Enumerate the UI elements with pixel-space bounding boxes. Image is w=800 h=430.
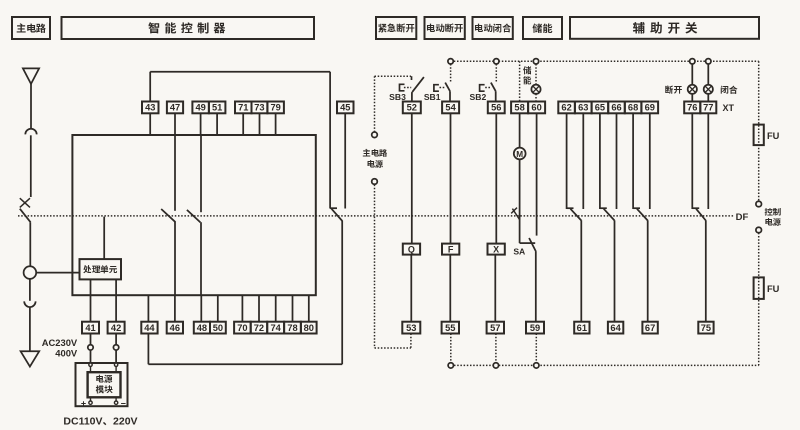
pushbutton SB2 actuator (480, 85, 492, 92)
rail tap circle above SB1 (448, 59, 453, 64)
bottom rail tap circle 57 (493, 363, 498, 368)
svg-text:−: − (121, 398, 126, 408)
svg-text:主电路: 主电路 (16, 20, 47, 35)
wire controller bottom stub x=308.8 (308, 295, 310, 322)
terminal 58 (511, 102, 528, 114)
wire SB2 to terminal (495, 91, 497, 101)
svg-text:64: 64 (610, 323, 621, 333)
svg-text:52: 52 (407, 103, 417, 113)
instrument circle on main circuit (24, 266, 37, 279)
terminal 53 (402, 322, 420, 334)
wire terminal to controller top at x=243.2 (242, 113, 244, 135)
wire coil F to 55 (449, 255, 451, 322)
terminal 45 (337, 102, 354, 114)
wire 43 up (149, 72, 151, 102)
svg-text:SB2: SB2 (470, 92, 487, 102)
circuit breaker symbol x-cross (20, 198, 30, 207)
dashed wire to charging lamp (535, 64, 537, 85)
label box: electric open 电动断开 (425, 17, 465, 39)
svg-text:47: 47 (170, 103, 180, 113)
wire aux contact to 64 (614, 220, 616, 321)
wire terminal to controller top at x=217.1 (216, 113, 218, 135)
bottom rail tap circle 55 (448, 363, 453, 368)
svg-text:电源: 电源 (367, 158, 384, 170)
wire terminal to controller top at x=275.6 (275, 113, 277, 135)
wire top rail 43 to DF contact (150, 71, 330, 73)
svg-text:67: 67 (645, 323, 655, 333)
module wire left (90, 367, 92, 373)
dashed wire rail to SB1 (450, 64, 452, 83)
coil X (closing release) (488, 244, 505, 255)
terminal 69 (641, 102, 658, 114)
right control rail upper (dotted) (758, 61, 760, 201)
terminal 70 (234, 322, 251, 334)
wire 60 to SA fixed contact (536, 113, 538, 235)
svg-text:60: 60 (531, 103, 541, 113)
dashed wire rail to SB2 (495, 64, 497, 83)
svg-text:48: 48 (197, 323, 207, 333)
svg-text:61: 61 (577, 323, 587, 333)
wire processing unit to linkage (103, 217, 105, 260)
terminal 55 (442, 322, 459, 334)
terminal 54 (442, 102, 459, 114)
terminal 80 (301, 322, 317, 334)
main circuit power terminal upper (372, 132, 378, 138)
wire 41 to circle (90, 334, 92, 345)
wire up to 44 (147, 334, 149, 365)
svg-text:75: 75 (701, 323, 711, 333)
intelligent controller outline box (72, 135, 315, 295)
drawout disconnect lower (arc) (24, 301, 35, 307)
wire SA common (520, 242, 536, 244)
wire 54 to coil F (450, 113, 452, 243)
svg-text:43: 43 (145, 103, 155, 113)
wire 52 to coil Q (411, 113, 413, 243)
wire processing unit to 41 (90, 279, 92, 322)
rail tap circle above close lamp (706, 59, 711, 64)
terminal 75 (698, 322, 713, 334)
wire aux contact left fixed (to 75 group) (691, 113, 693, 209)
terminal 44 (141, 322, 157, 334)
terminal 64 (608, 322, 623, 334)
right control rail lower (dotted) (758, 233, 760, 366)
terminal 49 (192, 102, 209, 114)
svg-text:78: 78 (287, 323, 297, 333)
dashed wire 55 to bottom rail (450, 334, 452, 363)
aux contact blade (696, 209, 706, 221)
label box: intelligent controller 智能控制器 (62, 17, 315, 39)
dashed wire up to 53 (410, 334, 412, 349)
svg-text:XT: XT (723, 103, 735, 113)
module wire bottom right (115, 397, 117, 401)
svg-text:58: 58 (514, 103, 524, 113)
controller internal contact K2 (187, 135, 201, 295)
disconnect point under 41 (88, 345, 93, 350)
svg-text:电动闭合: 电动闭合 (474, 21, 512, 35)
wire circle to module (115, 350, 117, 363)
wire below breaker (29, 222, 31, 266)
rail tap circle above charging lamp (533, 59, 538, 64)
terminal 73 (252, 102, 268, 114)
terminal 74 (267, 322, 284, 334)
dashed wire right to 53 (375, 347, 411, 349)
wire terminal to controller top at x=175 (174, 113, 176, 135)
coil F (shunt release) (442, 244, 459, 255)
svg-text:DF: DF (736, 212, 749, 223)
svg-text:能: 能 (523, 75, 532, 87)
processing unit 处理单元 box (80, 259, 122, 279)
wire controller bottom stub x=201.3 (200, 295, 202, 322)
rail tap circle above SB2 (494, 59, 499, 64)
wire coil Q to 53 (410, 255, 412, 322)
svg-text:65: 65 (595, 103, 605, 113)
svg-text:SB1: SB1 (424, 92, 441, 102)
terminal 78 (284, 322, 301, 334)
svg-text:电动断开: 电动断开 (426, 21, 464, 35)
power module outer box (76, 363, 128, 406)
svg-text:79: 79 (270, 103, 280, 113)
label box: electric close 电动闭合 (473, 17, 513, 39)
wire controller bottom stub x=242.4 (241, 295, 243, 322)
svg-text:59: 59 (530, 323, 540, 333)
pushbutton SB2 blade (491, 83, 496, 92)
aux contact blade (637, 209, 648, 221)
svg-text:70: 70 (237, 323, 247, 333)
rail tap circle above open lamp (690, 59, 695, 64)
fuse FU upper (754, 125, 780, 146)
svg-text:M: M (516, 150, 523, 159)
wire controller bottom stub x=174.9 (174, 295, 176, 322)
svg-text:SA: SA (513, 247, 525, 257)
terminal 79 (267, 102, 284, 114)
terminal 71 (235, 102, 252, 114)
svg-text:紧急断开: 紧急断开 (378, 21, 416, 35)
svg-text:DC110V、220V: DC110V、220V (63, 414, 137, 429)
SB3 fixed contact tick (411, 76, 413, 80)
svg-text:闭合: 闭合 (720, 83, 738, 96)
terminal 67 (642, 322, 657, 334)
svg-text:55: 55 (445, 323, 455, 333)
wire aux contact to 61 (580, 220, 582, 321)
svg-text:X: X (493, 245, 499, 255)
wire circle to module (90, 350, 92, 363)
wire aux contact right fixed (649, 113, 651, 209)
coil Q (opening release) (403, 244, 420, 255)
dashed wire down from terminal (374, 185, 376, 348)
svg-text:73: 73 (254, 103, 264, 113)
bottom rail tap circle 59 (534, 363, 539, 368)
svg-text:69: 69 (645, 103, 655, 113)
svg-text:57: 57 (490, 323, 500, 333)
svg-text:45: 45 (340, 103, 350, 113)
control power terminal upper (756, 201, 762, 207)
terminal 51 (209, 102, 226, 114)
bottom control rail (dotted) (451, 364, 759, 366)
top control rail (dotted) (451, 60, 759, 62)
terminal 42 (108, 322, 125, 334)
control power terminal lower (756, 227, 762, 233)
aux contact fixed tick (692, 207, 699, 209)
indicator lamp: open 断开 (688, 85, 697, 94)
aux contact fixed tick (567, 207, 574, 209)
terminal 63 (575, 102, 592, 114)
dashed wire lamp to 60 (535, 94, 537, 101)
wire processing unit to main circuit circle (36, 272, 79, 274)
terminal 60 (528, 102, 545, 114)
terminal 62 (558, 102, 575, 114)
svg-text:71: 71 (238, 103, 248, 113)
fixed contact tick at DF contact (330, 207, 337, 209)
wire processing unit to 42 (115, 279, 117, 322)
svg-text:电源: 电源 (765, 216, 782, 228)
dashed wire rail to 58 (519, 61, 521, 101)
module terminal circle bottom left (89, 401, 92, 404)
terminal 48 (194, 322, 210, 334)
svg-text:66: 66 (611, 103, 621, 113)
dashed wire 59 to bottom rail (535, 334, 537, 363)
wire aux contact right fixed (707, 113, 709, 209)
label box: emergency open 紧急断开 (376, 17, 416, 39)
wire terminal to controller top at x=150.2 (149, 113, 151, 135)
dashed wire down to main power terminal (374, 76, 376, 132)
dashed wire to SB3 fixed contact (375, 75, 412, 77)
wire 45 down to contact (344, 113, 346, 208)
main circuit power terminal lower (372, 179, 378, 185)
svg-text:51: 51 (212, 103, 222, 113)
terminal 41 (82, 322, 99, 334)
wire aux contact left fixed (to 61 group) (566, 113, 568, 209)
svg-text:49: 49 (195, 103, 205, 113)
module terminal circle bottom right (114, 401, 117, 404)
module wire bottom left (90, 397, 92, 401)
wire motor to SA (519, 159, 521, 243)
svg-text:断开: 断开 (665, 83, 683, 96)
terminal 50 (210, 322, 226, 334)
svg-text:FU: FU (767, 131, 780, 141)
wire aux contact to 67 (647, 220, 649, 321)
svg-text:54: 54 (445, 103, 456, 113)
wire SA to 59 (535, 252, 537, 322)
svg-text:53: 53 (406, 323, 416, 333)
svg-text:FU: FU (767, 284, 780, 294)
terminal 77 (700, 102, 716, 114)
indicator lamp: charging (531, 85, 540, 94)
pushbutton SB1 blade (445, 83, 450, 92)
svg-text:76: 76 (687, 103, 697, 113)
svg-text:62: 62 (561, 103, 571, 113)
disconnect point under 42 (113, 345, 118, 350)
svg-text:+: + (81, 398, 86, 408)
pushbutton SB3 blade (412, 77, 424, 92)
breaker moving blade (20, 209, 31, 223)
svg-text:77: 77 (703, 103, 713, 113)
wire aux contact left fixed (to 64 group) (599, 113, 601, 209)
module terminal circle top right (114, 363, 117, 366)
wire aux contact right fixed (616, 113, 618, 209)
wire controller bottom stub x=259 (258, 295, 260, 322)
aux contact fixed tick (600, 207, 607, 209)
wire 56 to coil X (495, 113, 497, 243)
aux contact blade (570, 209, 581, 221)
svg-text:80: 80 (304, 323, 314, 333)
terminal 43 (142, 102, 159, 114)
wire SB3 to 52 (411, 92, 413, 101)
svg-text:处理单元: 处理单元 (83, 264, 118, 276)
wire terminal to controller top at x=259.5 (259, 113, 261, 135)
svg-text:42: 42 (111, 323, 121, 333)
wire coil X to 57 (494, 255, 496, 322)
wire to open lamp (691, 64, 693, 85)
svg-text:辅助开关: 辅助开关 (632, 17, 702, 36)
SA changeover blade (529, 238, 536, 252)
wire to breaker contact (30, 135, 32, 197)
indicator lamp: close 闭合 (704, 85, 713, 94)
wire aux contact left fixed (to 67 group) (632, 113, 634, 209)
wire terminal to controller top at x=200.6 (200, 113, 202, 135)
wire main circuit upper (30, 84, 32, 129)
svg-text:Q: Q (408, 245, 415, 255)
power module 电源模块 inner box (88, 372, 121, 397)
terminal 66 (608, 102, 625, 114)
svg-text:储能: 储能 (533, 20, 553, 35)
wire controller bottom stub x=217.8 (217, 295, 219, 322)
svg-text:智能控制器: 智能控制器 (148, 19, 230, 36)
wire controller bottom stub x=292.5 (292, 295, 294, 322)
terminal 52 (403, 102, 421, 114)
terminal 59 (526, 322, 544, 334)
terminal 68 (625, 102, 642, 114)
svg-text:63: 63 (578, 103, 588, 113)
svg-text:F: F (448, 245, 454, 255)
svg-text:56: 56 (491, 103, 501, 113)
mechanical linkage line (dotted) to DF (18, 215, 735, 217)
DF auxiliary contact blade (332, 209, 343, 221)
svg-text:68: 68 (628, 103, 638, 113)
wire to close lamp (707, 64, 709, 85)
svg-text:400V: 400V (55, 347, 78, 358)
svg-text:41: 41 (85, 323, 95, 333)
main circuit: bottom drawout arrow (triangle) (21, 351, 40, 366)
wire to bottom arrow (29, 307, 31, 351)
terminal 56 (488, 102, 505, 114)
terminal 46 (167, 322, 183, 334)
module terminal circle top left (89, 363, 92, 366)
wire open lamp to 76 (691, 94, 693, 102)
terminal 61 (574, 322, 589, 334)
label box: main circuit 主电路 (12, 17, 50, 39)
wire 58 to motor (519, 113, 521, 147)
wire close lamp to 77 (707, 94, 709, 102)
svg-text:50: 50 (213, 323, 223, 333)
aux contact fixed tick (633, 207, 640, 209)
pushbutton SB3 actuator (400, 84, 412, 91)
main circuit: top drawout arrow (triangle) (23, 68, 39, 84)
drawout disconnect upper (arc) (25, 129, 36, 135)
label box: charging 储能 (523, 17, 562, 39)
wire 42 to circle (115, 334, 117, 345)
wire below circle (29, 279, 31, 301)
module wire right (115, 367, 117, 373)
terminal 65 (592, 102, 609, 114)
svg-text:46: 46 (170, 323, 180, 333)
pushbutton SB1 actuator (434, 85, 446, 92)
svg-text:模块: 模块 (94, 384, 112, 396)
wire SB1 to terminal (449, 91, 451, 101)
motor M (charging motor) (514, 148, 526, 160)
terminal 57 (487, 322, 504, 334)
svg-text:SB3: SB3 (389, 92, 406, 102)
terminal 76 (684, 102, 700, 114)
aux contact blade (604, 209, 615, 221)
dashed wire 57 to bottom rail (495, 334, 497, 363)
wire aux contact right fixed (582, 113, 584, 209)
terminal 72 (251, 322, 268, 334)
wire down to DF contact (329, 72, 331, 209)
svg-text:74: 74 (270, 323, 281, 333)
wire contact down (341, 221, 343, 365)
controller internal contact K1 (161, 135, 175, 295)
svg-text:44: 44 (144, 323, 155, 333)
SA linkage contact mark (511, 208, 519, 220)
wire aux contact to 75 (705, 220, 707, 321)
svg-text:72: 72 (254, 323, 264, 333)
wire bottom across to 44 (148, 363, 342, 365)
label box: auxiliary switch 辅助开关 (570, 17, 759, 39)
wire controller bottom stub x=275.7 (275, 295, 277, 322)
fuse FU lower (754, 277, 780, 299)
wire controller bottom stub to 44 (147, 295, 149, 322)
terminal 47 (167, 102, 183, 114)
